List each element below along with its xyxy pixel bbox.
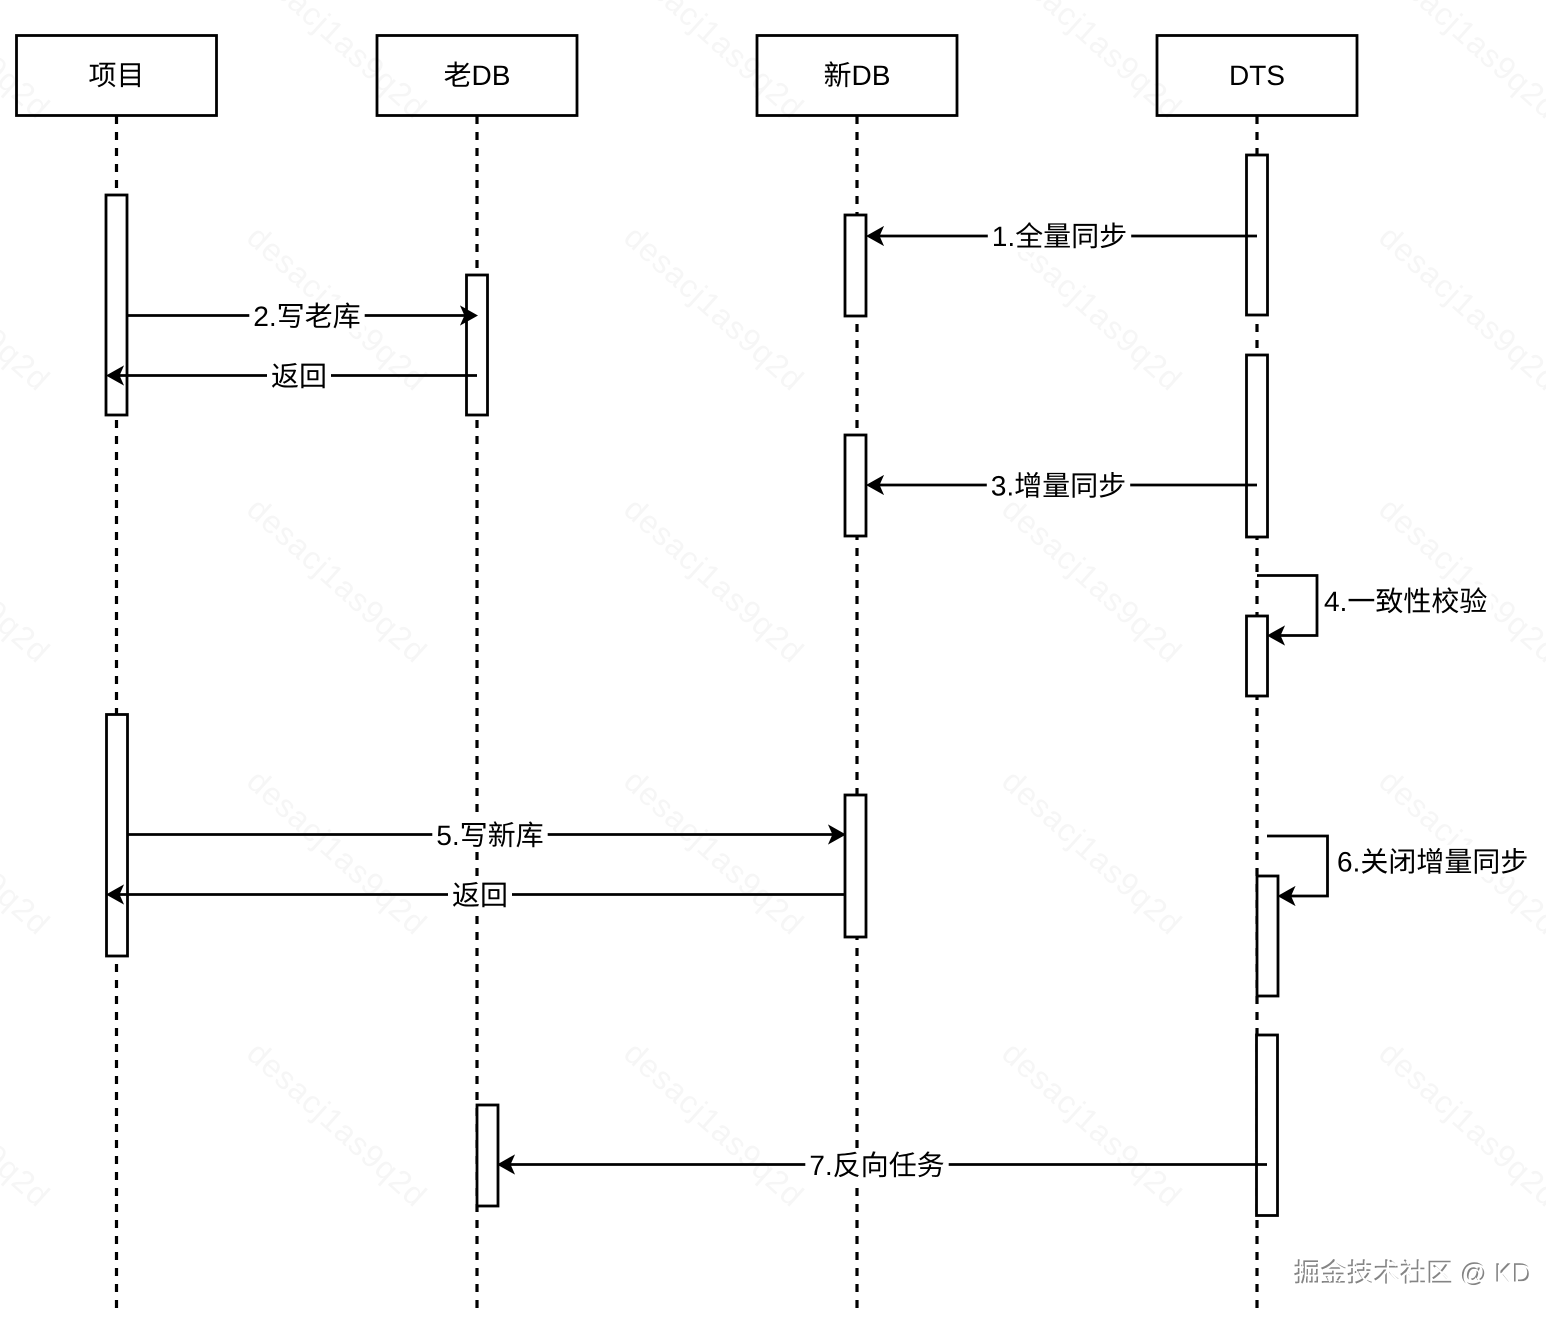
activation 新DB C1 (845, 215, 866, 316)
activation 项目 A1 (106, 195, 127, 415)
lifeline 1 wire (115, 116, 118, 1308)
activation DTS D2 (1247, 355, 1268, 537)
message 2 wire 项目 to 老DB (128, 314, 475, 317)
label 3.增量同步 (987, 470, 1130, 502)
participant 项目 (17, 36, 217, 116)
activation 新DB C2 (845, 435, 866, 536)
label 返回 (1) (267, 360, 331, 392)
label 返回 (2) (448, 879, 512, 911)
lifeline 3 wire (855, 116, 858, 1308)
label 5.写新库 (432, 819, 547, 851)
arrowhead message 7 (498, 1156, 514, 1174)
activation 新DB C3 (845, 795, 866, 937)
arrowhead self message 4 (1268, 627, 1284, 645)
return 2 wire 新DB to 项目 (110, 893, 845, 896)
message 1 wire DTS to 新DB (869, 235, 1257, 238)
label 6.关闭增量同步 (1333, 845, 1532, 877)
lifeline 4 wire (1255, 116, 1258, 1308)
activation DTS D4 (1257, 876, 1278, 996)
arrowhead return 2 (107, 886, 123, 904)
self message 6 wire DTS (1267, 836, 1328, 896)
arrowhead message 5 (829, 826, 845, 844)
activation DTS D5 (1257, 1035, 1278, 1216)
activation 老DB B1 (467, 275, 488, 415)
self message 4 wire DTS (1257, 576, 1317, 636)
arrowhead message 3 (867, 476, 883, 494)
watermark 掘金技术社区 @ KD (1294, 1259, 1531, 1287)
arrowhead return 1 (107, 367, 123, 385)
arrowhead self message 6 (1279, 887, 1295, 905)
label 7.反向任务 (805, 1149, 948, 1181)
participant DTS (1157, 36, 1357, 116)
message 3 wire DTS to 新DB (869, 484, 1257, 487)
label 2.写老库 (249, 300, 364, 332)
arrowhead message 2 (461, 307, 477, 325)
message 5 wire 项目 to 新DB (128, 833, 843, 836)
activation 老DB B2 (477, 1105, 498, 1206)
activation 项目 A2 (107, 715, 128, 957)
lifeline 2 wire (475, 116, 478, 1308)
return 1 wire 老DB to 项目 (110, 374, 477, 377)
activation DTS D1 (1247, 155, 1268, 315)
label 4.一致性校验 (1320, 585, 1491, 617)
activation DTS D3 (1247, 616, 1268, 696)
participant 老DB (377, 36, 577, 116)
label 1.全量同步 (988, 220, 1131, 252)
participant 新DB (757, 36, 957, 116)
message 7 wire DTS to 老DB (500, 1163, 1267, 1166)
arrowhead message 1 (867, 227, 883, 245)
